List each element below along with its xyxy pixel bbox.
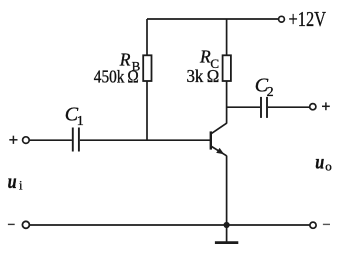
- wire V+ top rail: [147, 18, 279, 20]
- wire R_C top lead: [226, 19, 228, 55]
- terminal output plus circle: [310, 104, 316, 110]
- svg-text:+12V: +12V: [289, 7, 327, 31]
- wire collector to C2: [227, 106, 260, 108]
- terminal output minus sign: [323, 223, 330, 225]
- svg-text:1: 1: [77, 114, 84, 129]
- terminal output minus circle: [310, 222, 316, 228]
- terminal input plus sign: [9, 136, 17, 144]
- terminal input minus circle: [22, 221, 29, 228]
- terminal output plus sign: [322, 102, 330, 110]
- wire C2 to output: [268, 106, 310, 108]
- wire C1 to base: [80, 139, 211, 141]
- label C2: [255, 75, 274, 100]
- terminal input minus sign: [8, 223, 15, 225]
- transistor Q1 (NPN): [211, 123, 227, 156]
- svg-text:o: o: [325, 159, 332, 174]
- resistor R_B: [143, 55, 151, 81]
- svg-text:u: u: [8, 169, 17, 193]
- wire R_B top lead: [146, 19, 148, 55]
- svg-text:u: u: [315, 149, 324, 173]
- capacitor C1: [73, 128, 79, 152]
- label R_B: [119, 50, 141, 74]
- capacitor C2: [261, 97, 267, 118]
- wire emitter lead: [226, 156, 228, 242]
- svg-text:2: 2: [267, 85, 274, 100]
- label R_C: [199, 46, 219, 70]
- wire bottom rail: [30, 224, 310, 226]
- svg-text:i: i: [19, 179, 23, 193]
- svg-text:3k Ω: 3k Ω: [187, 66, 220, 86]
- label C1: [65, 104, 84, 129]
- svg-text:450k Ω: 450k Ω: [94, 66, 139, 86]
- label u_i: [8, 169, 23, 193]
- wire collector lead: [226, 81, 228, 124]
- wire R_B bottom lead: [146, 81, 148, 141]
- terminal input plus circle: [23, 137, 30, 144]
- wire input to C1: [29, 139, 72, 141]
- label u_o: [315, 149, 332, 173]
- resistor R_C: [223, 55, 231, 81]
- junction dot emitter/ground: [224, 222, 230, 228]
- ground: [215, 241, 238, 244]
- svg-text:R: R: [199, 46, 211, 66]
- terminal +12V: [279, 16, 285, 22]
